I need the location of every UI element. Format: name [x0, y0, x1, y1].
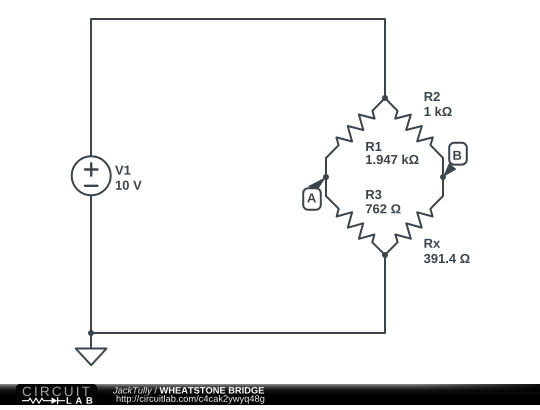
- junction dot top node: [382, 95, 388, 101]
- junction dot bottom node: [382, 252, 388, 258]
- V1 plus and minus signs: [85, 163, 97, 186]
- wire node B stub up: [442, 158, 444, 177]
- label Rx: [424, 239, 440, 248]
- logo word CIRCUIT: [23, 387, 90, 397]
- label R3 value: [366, 204, 401, 213]
- node label A box: [303, 188, 321, 210]
- logo diode: [52, 397, 58, 404]
- node A pointer: [308, 177, 326, 191]
- label R1: [366, 142, 381, 151]
- logo word LAB: [67, 397, 93, 404]
- label R2 value: [425, 107, 452, 116]
- resistor Rx: [385, 196, 443, 255]
- voltage source V1 circle: [72, 156, 111, 195]
- node label B box: [449, 143, 467, 165]
- ground symbol: [76, 349, 107, 366]
- footer url: [117, 395, 265, 404]
- node A letter: [307, 193, 316, 202]
- wire node A stub down: [325, 177, 327, 196]
- wire top rail: [91, 19, 385, 157]
- label R2: [425, 92, 440, 101]
- junction dot ground: [88, 330, 94, 336]
- label V1: [115, 166, 130, 175]
- wire node A stub up: [325, 158, 327, 177]
- label R3: [366, 190, 381, 199]
- label V1 value: [116, 181, 142, 190]
- resistor R3: [326, 196, 385, 255]
- footer author: [113, 387, 157, 396]
- junction dot node B: [440, 174, 446, 180]
- footer title: [160, 387, 265, 394]
- wire ground stub: [90, 333, 92, 349]
- wire bottom rail: [91, 196, 385, 334]
- resistor R2: [385, 98, 443, 158]
- logo pill: [16, 384, 97, 405]
- node B pointer: [443, 163, 457, 177]
- resistor R1: [326, 98, 385, 158]
- label R1 value: [366, 155, 418, 165]
- wire node B stub down: [442, 177, 444, 196]
- node B letter: [453, 151, 461, 160]
- junction dot node A: [323, 174, 329, 180]
- logo squiggle wire: [22, 398, 52, 403]
- label Rx value: [424, 254, 470, 263]
